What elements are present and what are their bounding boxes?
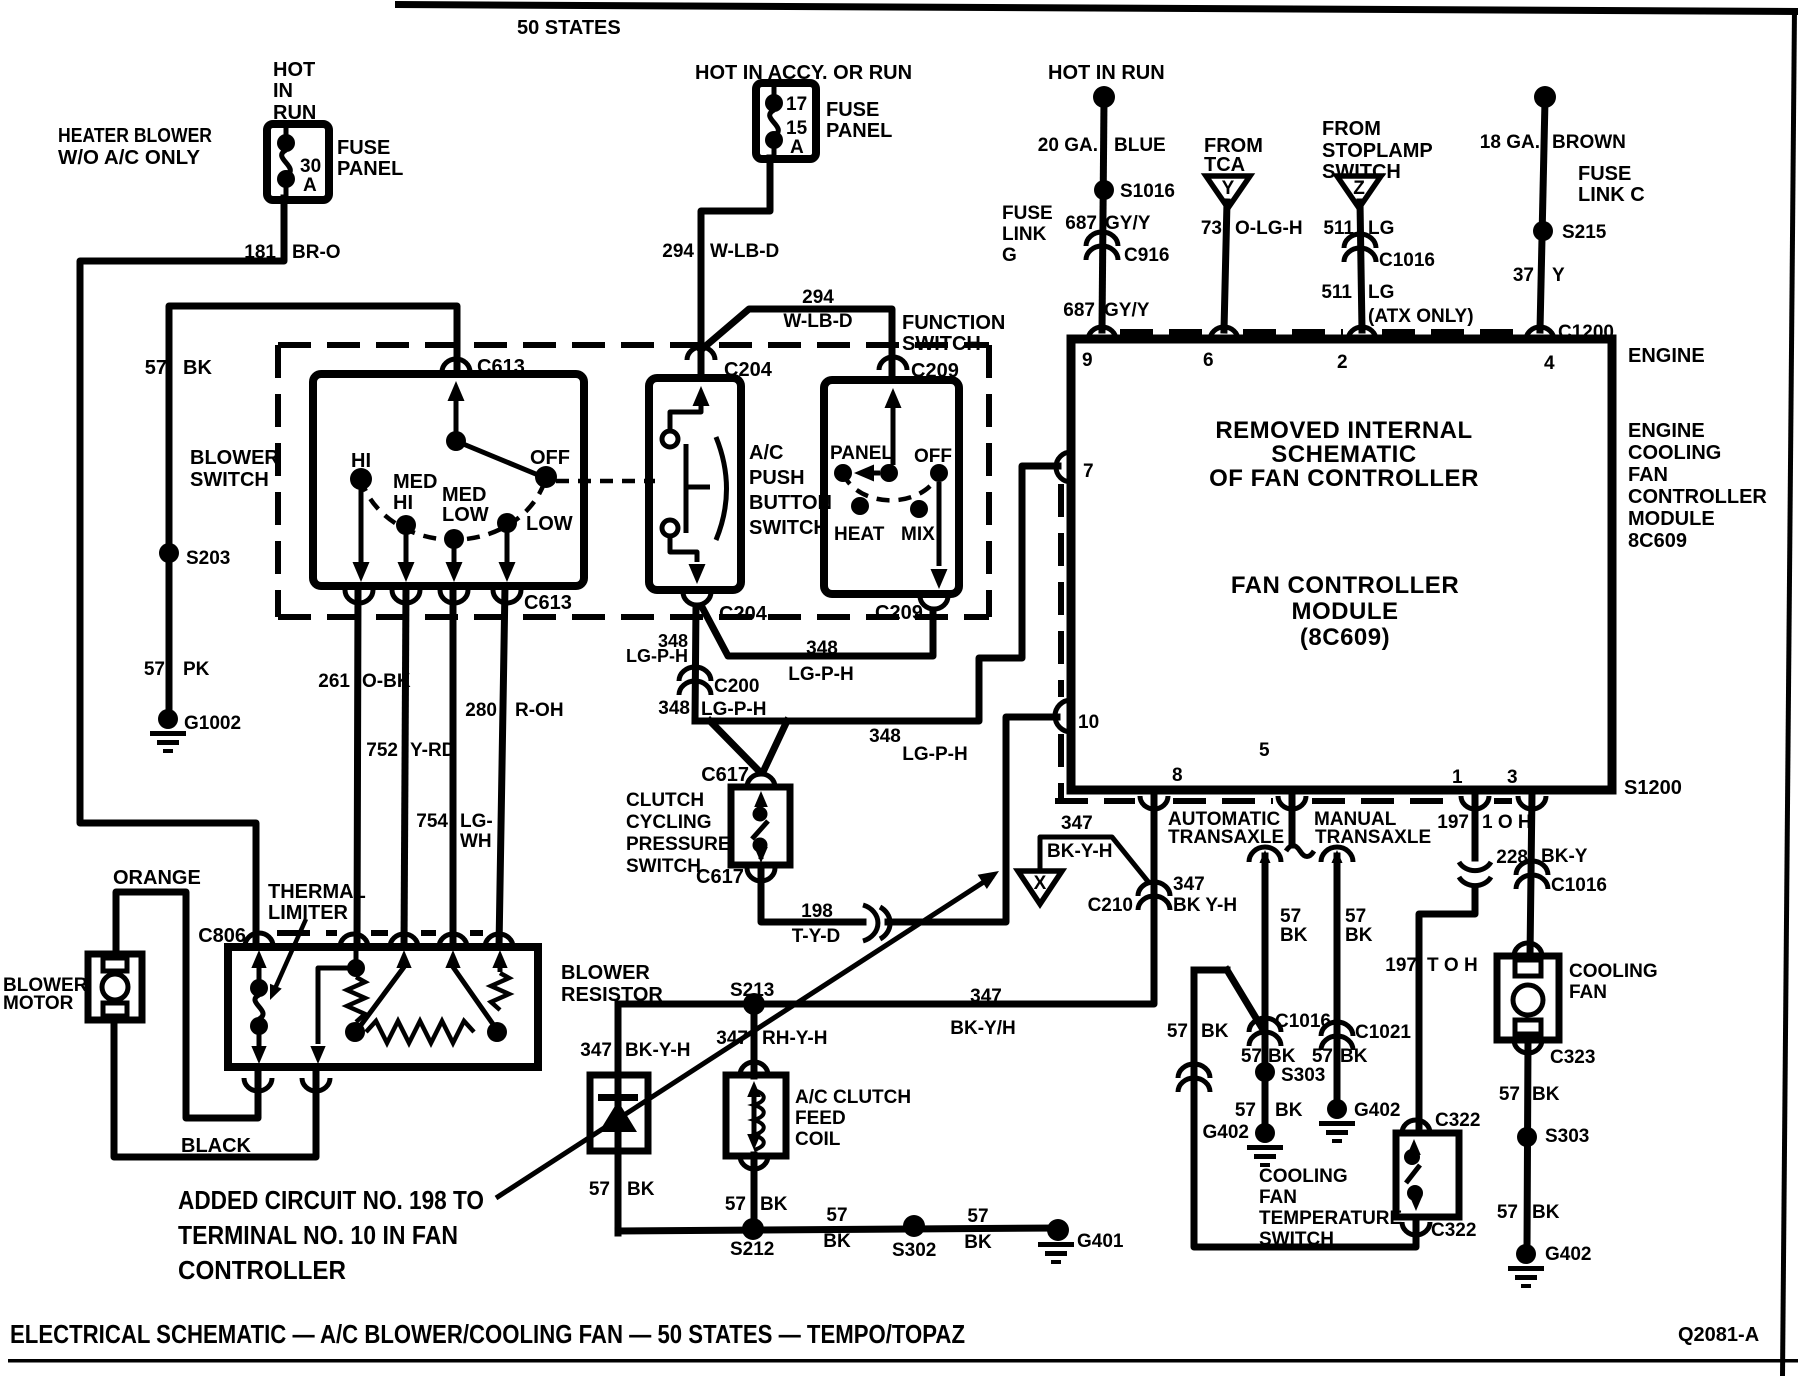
svg-text:HEAT: HEAT	[834, 524, 885, 545]
svg-text:511: 511	[1321, 282, 1352, 303]
svg-text:G402: G402	[1545, 1244, 1591, 1265]
svg-text:ORANGE: ORANGE	[113, 867, 201, 889]
svg-text:7: 7	[1083, 461, 1094, 482]
svg-text:FROM: FROM	[1322, 118, 1381, 140]
svg-text:228: 228	[1496, 847, 1528, 868]
svg-text:PRESSURE: PRESSURE	[626, 834, 731, 855]
svg-text:LINK: LINK	[1002, 224, 1047, 245]
svg-text:5: 5	[1259, 740, 1270, 761]
svg-text:50 STATES: 50 STATES	[517, 17, 621, 39]
svg-text:SCHEMATIC: SCHEMATIC	[1271, 441, 1416, 468]
svg-text:IN: IN	[273, 80, 293, 102]
svg-text:SWITCH: SWITCH	[1259, 1229, 1334, 1250]
svg-text:LG-P-H: LG-P-H	[788, 664, 853, 685]
svg-text:TRANSAXLE: TRANSAXLE	[1315, 827, 1431, 848]
svg-text:57: 57	[145, 357, 167, 379]
svg-text:C806: C806	[198, 925, 246, 947]
svg-text:PANEL: PANEL	[337, 158, 403, 180]
svg-text:CONTROLLER: CONTROLLER	[1628, 486, 1767, 508]
svg-text:G401: G401	[1077, 1231, 1124, 1252]
svg-text:SWITCH: SWITCH	[190, 469, 269, 491]
svg-text:LINK C: LINK C	[1578, 184, 1645, 206]
svg-text:FEED: FEED	[795, 1108, 846, 1129]
svg-text:BK: BK	[1275, 1100, 1303, 1121]
svg-text:A: A	[790, 137, 804, 158]
svg-text:347: 347	[716, 1028, 748, 1049]
svg-text:RESISTOR: RESISTOR	[561, 984, 663, 1006]
svg-text:W/O A/C ONLY: W/O A/C ONLY	[58, 147, 201, 169]
svg-text:2: 2	[1337, 352, 1348, 373]
svg-text:15: 15	[786, 118, 808, 139]
svg-text:ADDED CIRCUIT NO. 198 TO: ADDED CIRCUIT NO. 198 TO	[178, 1185, 484, 1215]
svg-text:BROWN: BROWN	[1552, 132, 1626, 153]
svg-text:57: 57	[967, 1206, 988, 1227]
svg-text:BK: BK	[1340, 1046, 1368, 1067]
svg-text:57: 57	[1312, 1046, 1333, 1067]
svg-text:348: 348	[869, 726, 901, 747]
svg-text:OFF: OFF	[914, 446, 952, 467]
svg-text:PANEL: PANEL	[830, 443, 893, 464]
svg-text:347: 347	[580, 1040, 612, 1061]
svg-text:LG-: LG-	[460, 811, 493, 832]
svg-text:294: 294	[802, 287, 834, 308]
svg-text:O-LG-H: O-LG-H	[1235, 218, 1303, 239]
svg-text:A/C CLUTCH: A/C CLUTCH	[795, 1087, 911, 1108]
svg-text:8: 8	[1172, 765, 1183, 786]
svg-text:BK: BK	[1280, 925, 1308, 946]
svg-text:Y: Y	[1222, 178, 1235, 199]
svg-text:BK Y-H: BK Y-H	[1173, 895, 1237, 916]
svg-text:CONTROLLER: CONTROLLER	[178, 1255, 346, 1285]
svg-text:ELECTRICAL SCHEMATIC — A/C BLO: ELECTRICAL SCHEMATIC — A/C BLOWER/COOLIN…	[10, 1319, 965, 1349]
svg-text:PK: PK	[183, 659, 210, 680]
svg-text:C1200: C1200	[1558, 322, 1614, 343]
svg-text:SWITCH: SWITCH	[1322, 161, 1401, 183]
svg-text:LG-P-H: LG-P-H	[626, 646, 688, 666]
svg-text:COOLING: COOLING	[1259, 1166, 1348, 1187]
svg-text:R-OH: R-OH	[515, 700, 564, 721]
svg-text:THERMAL: THERMAL	[268, 881, 366, 903]
svg-text:RH-Y-H: RH-Y-H	[762, 1028, 827, 1049]
svg-text:BLACK: BLACK	[181, 1135, 252, 1157]
svg-text:G402: G402	[1354, 1100, 1400, 1121]
svg-text:687: 687	[1065, 213, 1097, 234]
svg-text:18 GA.: 18 GA.	[1480, 132, 1540, 153]
svg-text:57: 57	[1345, 906, 1366, 927]
svg-text:280: 280	[465, 700, 497, 721]
svg-text:FAN CONTROLLER: FAN CONTROLLER	[1231, 572, 1459, 599]
svg-text:73: 73	[1201, 218, 1222, 239]
svg-text:197: 197	[1385, 955, 1417, 976]
svg-text:HOT IN RUN: HOT IN RUN	[1048, 62, 1165, 84]
svg-text:G: G	[1002, 245, 1017, 266]
svg-text:TEMPERATURE: TEMPERATURE	[1259, 1208, 1402, 1229]
svg-text:S215: S215	[1562, 222, 1607, 243]
svg-text:WH: WH	[460, 831, 492, 852]
svg-text:37: 37	[1513, 265, 1534, 286]
svg-text:C617: C617	[701, 764, 749, 786]
svg-text:OF FAN CONTROLLER: OF FAN CONTROLLER	[1209, 465, 1479, 492]
svg-text:57: 57	[1167, 1021, 1188, 1042]
svg-text:511: 511	[1323, 218, 1354, 239]
svg-text:C210: C210	[1088, 895, 1133, 916]
svg-text:A/C: A/C	[749, 442, 783, 464]
svg-text:C1016: C1016	[1379, 250, 1435, 271]
svg-text:347: 347	[1173, 874, 1205, 895]
svg-text:57: 57	[144, 659, 165, 680]
svg-text:BK: BK	[1201, 1021, 1229, 1042]
svg-text:S1200: S1200	[1624, 777, 1682, 799]
svg-text:BK: BK	[964, 1232, 992, 1253]
svg-text:S203: S203	[186, 548, 230, 569]
svg-text:8C609: 8C609	[1628, 530, 1687, 552]
svg-text:BLOWER: BLOWER	[190, 447, 279, 469]
svg-text:BUTTON: BUTTON	[749, 492, 832, 514]
svg-text:G402: G402	[1203, 1122, 1249, 1143]
svg-text:(8C609): (8C609)	[1300, 624, 1390, 651]
svg-text:Y: Y	[1552, 265, 1565, 286]
svg-text:G1002: G1002	[184, 713, 241, 734]
svg-text:1: 1	[1452, 767, 1463, 788]
svg-text:754: 754	[416, 811, 448, 832]
svg-text:BK: BK	[1532, 1084, 1560, 1105]
svg-text:BK-Y-H: BK-Y-H	[1047, 841, 1112, 862]
svg-text:BK: BK	[1268, 1046, 1296, 1067]
svg-text:BK: BK	[627, 1179, 655, 1200]
svg-text:17: 17	[786, 94, 807, 115]
svg-text:57: 57	[1235, 1100, 1256, 1121]
svg-text:RUN: RUN	[273, 102, 316, 124]
svg-text:198: 198	[801, 901, 833, 922]
svg-text:BK: BK	[1532, 1202, 1560, 1223]
svg-text:1 O H: 1 O H	[1482, 812, 1532, 833]
svg-text:X: X	[1034, 873, 1047, 894]
svg-text:BK-Y/H: BK-Y/H	[950, 1018, 1015, 1039]
svg-text:MED: MED	[393, 471, 437, 493]
svg-text:57: 57	[1497, 1202, 1518, 1223]
svg-text:SWITCH: SWITCH	[902, 333, 981, 355]
svg-text:FUSE: FUSE	[1578, 163, 1631, 185]
svg-text:BR-O: BR-O	[292, 242, 341, 263]
svg-text:HI: HI	[393, 492, 413, 514]
svg-text:57: 57	[1241, 1046, 1262, 1067]
svg-text:20 GA.: 20 GA.	[1038, 135, 1098, 156]
svg-text:CYCLING: CYCLING	[626, 812, 712, 833]
svg-text:LG: LG	[1368, 282, 1394, 303]
svg-text:W-LB-D: W-LB-D	[783, 311, 852, 332]
svg-text:MOTOR: MOTOR	[3, 993, 74, 1014]
svg-text:C916: C916	[1124, 245, 1169, 266]
svg-text:TCA: TCA	[1204, 154, 1245, 176]
svg-text:S213: S213	[730, 980, 774, 1001]
svg-text:STOPLAMP: STOPLAMP	[1322, 140, 1433, 162]
svg-text:C323: C323	[1550, 1047, 1595, 1068]
svg-text:181: 181	[244, 242, 276, 263]
svg-text:S212: S212	[730, 1239, 774, 1260]
svg-text:752: 752	[366, 740, 398, 761]
svg-text:GY/Y: GY/Y	[1104, 300, 1150, 321]
svg-text:OFF: OFF	[530, 447, 570, 469]
svg-text:C322: C322	[1435, 1110, 1480, 1131]
svg-text:FAN: FAN	[1569, 982, 1607, 1003]
svg-text:T O H: T O H	[1427, 955, 1478, 976]
svg-text:FAN: FAN	[1259, 1187, 1297, 1208]
svg-text:LIMITER: LIMITER	[268, 902, 349, 924]
svg-text:HI: HI	[351, 450, 371, 472]
svg-text:FUSE: FUSE	[337, 137, 390, 159]
svg-text:HOT IN ACCY. OR RUN: HOT IN ACCY. OR RUN	[695, 62, 912, 84]
svg-text:C209: C209	[875, 602, 923, 624]
svg-text:S303: S303	[1545, 1126, 1589, 1147]
svg-text:687: 687	[1063, 300, 1095, 321]
svg-text:BK: BK	[760, 1194, 788, 1215]
svg-text:57: 57	[725, 1194, 746, 1215]
svg-text:LOW: LOW	[526, 513, 573, 535]
svg-text:SWITCH: SWITCH	[626, 856, 701, 877]
svg-text:BK-Y-H: BK-Y-H	[625, 1040, 690, 1061]
svg-text:HOT: HOT	[273, 59, 315, 81]
svg-text:ENGINE: ENGINE	[1628, 345, 1705, 367]
svg-text:57: 57	[826, 1205, 847, 1226]
svg-text:FUNCTION: FUNCTION	[902, 312, 1005, 334]
svg-text:W-LB-D: W-LB-D	[710, 241, 779, 262]
svg-text:348: 348	[806, 638, 838, 659]
svg-text:(ATX ONLY): (ATX ONLY)	[1368, 306, 1474, 327]
svg-text:LG-P-H: LG-P-H	[902, 744, 967, 765]
svg-text:FUSE: FUSE	[826, 99, 879, 121]
svg-text:30: 30	[300, 156, 321, 177]
svg-text:S303: S303	[1281, 1065, 1325, 1086]
svg-text:PANEL: PANEL	[826, 120, 892, 142]
svg-text:9: 9	[1082, 350, 1093, 371]
svg-text:GY/Y: GY/Y	[1105, 213, 1151, 234]
svg-text:57: 57	[1499, 1084, 1520, 1105]
svg-text:C200: C200	[714, 676, 759, 697]
svg-text:4: 4	[1544, 353, 1555, 374]
svg-text:197: 197	[1437, 812, 1469, 833]
svg-text:S1016: S1016	[1120, 181, 1175, 202]
svg-text:SWITCH: SWITCH	[749, 517, 828, 539]
svg-text:MIX: MIX	[901, 524, 935, 545]
svg-text:BK: BK	[183, 357, 212, 379]
svg-text:C613: C613	[477, 356, 525, 378]
svg-text:MODULE: MODULE	[1292, 598, 1399, 625]
svg-text:BK: BK	[823, 1231, 851, 1252]
svg-text:347: 347	[970, 986, 1002, 1007]
svg-text:Q2081-A: Q2081-A	[1678, 1324, 1759, 1346]
svg-text:C1016: C1016	[1551, 875, 1607, 896]
svg-text:T-Y-D: T-Y-D	[792, 926, 841, 947]
svg-text:TRANSAXLE: TRANSAXLE	[1168, 827, 1284, 848]
svg-text:347: 347	[1061, 813, 1093, 834]
svg-text:LOW: LOW	[442, 504, 489, 526]
svg-text:57: 57	[589, 1179, 610, 1200]
svg-text:ENGINE: ENGINE	[1628, 420, 1705, 442]
svg-text:BLUE: BLUE	[1114, 135, 1166, 156]
svg-text:REMOVED INTERNAL: REMOVED INTERNAL	[1215, 417, 1472, 444]
svg-text:BLOWER: BLOWER	[561, 962, 650, 984]
svg-text:C613: C613	[524, 592, 572, 614]
svg-text:C1016: C1016	[1275, 1011, 1331, 1032]
svg-text:Y-RD: Y-RD	[410, 740, 455, 761]
svg-text:FUSE: FUSE	[1002, 203, 1053, 224]
svg-text:348: 348	[658, 698, 690, 719]
svg-text:PUSH: PUSH	[749, 467, 805, 489]
svg-text:3: 3	[1507, 767, 1518, 788]
svg-text:O-BK: O-BK	[362, 671, 411, 692]
svg-text:LG: LG	[1368, 218, 1394, 239]
svg-text:A: A	[303, 175, 317, 196]
svg-text:COIL: COIL	[795, 1129, 841, 1150]
svg-text:TERMINAL NO. 10 IN FAN: TERMINAL NO. 10 IN FAN	[178, 1220, 458, 1250]
svg-text:BK: BK	[1345, 925, 1373, 946]
svg-text:C322: C322	[1431, 1220, 1476, 1241]
svg-text:261: 261	[318, 671, 350, 692]
svg-text:C204: C204	[724, 359, 773, 381]
svg-text:LG-P-H: LG-P-H	[701, 699, 766, 720]
svg-text:57: 57	[1280, 906, 1301, 927]
svg-text:MODULE: MODULE	[1628, 508, 1715, 530]
svg-text:C617: C617	[696, 866, 744, 888]
svg-text:FAN: FAN	[1628, 464, 1668, 486]
svg-text:COOLING: COOLING	[1569, 961, 1658, 982]
svg-text:C1021: C1021	[1355, 1022, 1411, 1043]
svg-text:6: 6	[1203, 350, 1214, 371]
svg-text:BK-Y: BK-Y	[1541, 846, 1588, 867]
svg-text:HEATER BLOWER: HEATER BLOWER	[58, 125, 212, 147]
svg-text:S302: S302	[892, 1240, 936, 1261]
svg-text:MED: MED	[442, 484, 486, 506]
svg-text:294: 294	[662, 241, 694, 262]
svg-text:C209: C209	[911, 360, 959, 382]
svg-text:10: 10	[1078, 712, 1099, 733]
svg-text:COOLING: COOLING	[1628, 442, 1721, 464]
svg-text:CLUTCH: CLUTCH	[626, 790, 704, 811]
svg-text:C204: C204	[719, 603, 768, 625]
